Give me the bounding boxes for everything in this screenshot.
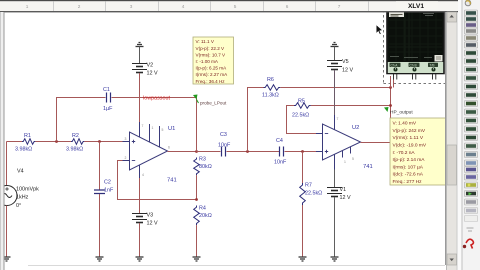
svg-text:I: -1.00 mA: I: -1.00 mA: [196, 59, 219, 64]
svg-text:6: 6: [286, 4, 289, 9]
wire U2 pin4 to V1: [334, 170, 336, 188]
wire C1 branch vertical: [57, 98, 106, 142]
svg-text:V: 11.1 V: V: 11.1 V: [196, 39, 215, 44]
wire R7 to ground: [302, 205, 304, 257]
wire R6 to output node: [280, 87, 390, 89]
svg-text:3: 3: [125, 137, 127, 141]
svg-text:C3: C3: [220, 132, 227, 138]
svg-text:3.98kΩ: 3.98kΩ: [66, 147, 83, 153]
wire R2 to U1 plus input: [84, 141, 129, 143]
AC source V4: [0, 142, 39, 258]
ground flipped above V5: [331, 43, 339, 47]
svg-text:R3: R3: [199, 157, 206, 163]
capacitor C3: [218, 132, 231, 157]
wire output up to lowpassout: [196, 98, 198, 152]
wire V5 to U2 pin7: [334, 70, 336, 115]
wire R5 loop: [287, 106, 323, 134]
svg-text:1: 1: [344, 160, 346, 164]
wire V1 to ground: [334, 197, 336, 257]
svg-text:I(p-p): 6.25 mA: I(p-p): 6.25 mA: [196, 66, 228, 71]
svg-text:7: 7: [337, 117, 339, 121]
svg-text:I(dc): -72.6 nA: I(dc): -72.6 nA: [393, 172, 424, 178]
wire R7 branch: [302, 152, 304, 184]
node junction R2-C2: [98, 140, 101, 143]
svg-text:1kHz: 1kHz: [16, 195, 29, 201]
svg-text:10nF: 10nF: [218, 143, 231, 149]
svg-text:3: 3: [130, 4, 133, 9]
ruler top band: [0, 0, 480, 12]
node scope junction: [389, 86, 392, 89]
wire lowpassout net: [112, 97, 197, 99]
svg-text:5: 5: [352, 157, 354, 161]
op-amp U2: [316, 115, 373, 170]
sheet border bottom: [28, 265, 445, 267]
svg-text:I(rms): 107 µA: I(rms): 107 µA: [393, 164, 424, 170]
oscilloscope XLV1 selection box: [384, 10, 447, 84]
left panel strip: [0, 12, 5, 270]
svg-text:11.3kΩ: 11.3kΩ: [262, 93, 279, 99]
probe tooltip HP: [390, 118, 446, 185]
wire V2 to U1 pin7: [139, 73, 141, 122]
ground below R7: [299, 257, 307, 261]
wire ground to V2: [139, 47, 141, 64]
svg-text:12 V: 12 V: [342, 68, 353, 74]
svg-text:4: 4: [142, 173, 144, 177]
svg-text:R2: R2: [72, 133, 79, 139]
svg-text:U2: U2: [352, 125, 359, 131]
svg-text:U1: U1: [168, 126, 175, 132]
wire R1 to R2: [35, 141, 71, 143]
resistor R3: [194, 157, 212, 176]
wire U1 pin4 to V3: [139, 178, 141, 213]
wire U2 output: [361, 142, 391, 144]
svg-text:741: 741: [363, 164, 373, 170]
wire output to C3: [197, 151, 221, 153]
battery V3: [132, 213, 158, 227]
svg-text:C4: C4: [276, 138, 283, 144]
resistor R7: [300, 183, 323, 205]
svg-text:T/B: T/B: [430, 63, 435, 67]
probe tooltip LP: [193, 37, 234, 84]
svg-text:80kΩ: 80kΩ: [199, 164, 212, 170]
svg-text:1nF: 1nF: [104, 188, 114, 194]
svg-text:I(rms): 2.27 mA: I(rms): 2.27 mA: [196, 72, 229, 77]
svg-text:12 V: 12 V: [147, 71, 158, 77]
ground below R4: [193, 257, 201, 261]
svg-text:7: 7: [338, 4, 341, 9]
battery V1: [327, 187, 351, 201]
svg-text:lowpassout: lowpassout: [143, 96, 170, 102]
svg-text:4: 4: [182, 4, 185, 9]
wire ground to V5: [334, 47, 336, 61]
svg-text:2: 2: [125, 156, 127, 160]
svg-text:I: -70.2 nA: I: -70.2 nA: [393, 150, 416, 156]
svg-text:I(p-p): 2.14 mA: I(p-p): 2.14 mA: [393, 157, 426, 163]
wire minus input feedback: [118, 161, 197, 200]
ruler XLV1 label overlay: [396, 1, 438, 10]
instruments toolbar: [463, 0, 480, 270]
probe HP_output: [384, 107, 413, 116]
vertical scrollbar: [446, 12, 458, 270]
svg-text:V1: V1: [340, 187, 347, 193]
svg-text:V(rms): 10.7 V: V(rms): 10.7 V: [196, 52, 227, 57]
svg-text:R5: R5: [298, 99, 305, 105]
svg-text:12 V: 12 V: [340, 195, 351, 201]
ground below V1: [331, 257, 339, 261]
capacitor C1: [103, 87, 113, 112]
wire output node vertical: [390, 76, 392, 143]
wire C3 to C4: [227, 151, 280, 153]
ground below V4: [3, 257, 11, 261]
resistor R5: [292, 99, 311, 119]
resistor R6: [262, 77, 280, 99]
svg-text:C1: C1: [103, 87, 110, 93]
svg-text:5: 5: [234, 4, 237, 9]
wire V3 to ground: [139, 223, 141, 257]
wire R5 to output node: [311, 105, 391, 107]
wire scope ChA to output: [391, 76, 394, 88]
svg-text:R7: R7: [305, 183, 312, 189]
node divider junction: [195, 198, 198, 201]
capacitor C4: [274, 138, 287, 166]
svg-text:R6: R6: [267, 77, 274, 83]
svg-text:1µF: 1µF: [103, 106, 113, 112]
wire R6 loop up: [248, 88, 264, 152]
wire C4 to U2 plus input: [285, 151, 323, 153]
svg-text:Freq.: 36.4 Hz: Freq.: 36.4 Hz: [196, 79, 226, 84]
wire C2 to ground: [99, 194, 101, 257]
svg-text:741: 741: [167, 178, 177, 184]
svg-text:V: 1.40 mV: V: 1.40 mV: [393, 121, 417, 127]
svg-text:probe_LPout: probe_LPout: [200, 101, 227, 106]
svg-text:V(rms): 1.11 V: V(rms): 1.11 V: [393, 135, 424, 141]
wire R4 to ground: [196, 225, 198, 257]
battery V2: [132, 63, 158, 77]
resistor R4: [194, 206, 212, 226]
svg-text:Ch B: Ch B: [410, 63, 417, 67]
svg-text:0°: 0°: [16, 203, 21, 209]
wire C2 branch vertical: [99, 142, 101, 190]
svg-text:HP_output: HP_output: [390, 110, 413, 116]
svg-text:V(p-p): 22.2 V: V(p-p): 22.2 V: [196, 46, 226, 51]
wire R3 to node: [196, 175, 198, 199]
svg-text:3.98kΩ: 3.98kΩ: [15, 147, 32, 153]
probe probe_LPout: [193, 95, 227, 106]
ground below C2: [96, 257, 104, 261]
svg-text:100mVpk: 100mVpk: [16, 187, 39, 193]
node R7 junction: [301, 150, 304, 153]
svg-text:7: 7: [142, 124, 144, 128]
svg-text:1: 1: [152, 126, 154, 130]
battery V5: [327, 59, 353, 74]
oscilloscope terminals: [394, 74, 436, 80]
svg-text:22.5kΩ: 22.5kΩ: [305, 191, 322, 197]
node U1 output junction: [195, 150, 198, 153]
svg-text:V(dc): -19.0 mV: V(dc): -19.0 mV: [393, 143, 427, 149]
ground flipped above V2: [136, 43, 144, 47]
svg-text:Ch A: Ch A: [391, 63, 399, 67]
wire U1 output: [168, 151, 197, 153]
canvas right border: [445, 12, 446, 265]
svg-text:20kΩ: 20kΩ: [199, 213, 212, 219]
svg-text:V3: V3: [147, 213, 154, 219]
oscilloscope XLV1 icon: [387, 10, 444, 74]
mouse cursor: [376, 25, 382, 35]
node junction R1-R2-C1: [55, 140, 58, 143]
node R5 junction: [389, 104, 392, 107]
ground below V3: [136, 257, 144, 261]
resistor R1: [15, 133, 35, 153]
svg-text:2: 2: [78, 4, 81, 9]
svg-text:C2: C2: [104, 180, 111, 186]
node midnode junction: [246, 150, 249, 153]
svg-text:XLV1: XLV1: [408, 3, 424, 10]
resistor R2: [66, 133, 84, 153]
svg-text:5: 5: [162, 128, 164, 132]
svg-text:V5: V5: [342, 59, 349, 65]
capacitor C2: [94, 180, 114, 194]
svg-text:R1: R1: [24, 133, 31, 139]
svg-text:1: 1: [26, 4, 29, 9]
svg-text:V2: V2: [147, 63, 154, 69]
op-amp U1: [123, 122, 177, 184]
wire V4 to R1: [7, 141, 23, 143]
svg-text:22.5kΩ: 22.5kΩ: [292, 113, 309, 119]
svg-text:V(p-p): 242 mV: V(p-p): 242 mV: [393, 128, 426, 134]
right gap column: [458, 0, 462, 270]
svg-text:R4: R4: [199, 206, 206, 212]
svg-text:Freq.: 277 Hz: Freq.: 277 Hz: [393, 179, 423, 185]
svg-text:12 V: 12 V: [147, 221, 158, 227]
svg-text:10nF: 10nF: [274, 160, 287, 166]
svg-text:V4: V4: [17, 169, 24, 175]
svg-text:6: 6: [168, 146, 170, 150]
